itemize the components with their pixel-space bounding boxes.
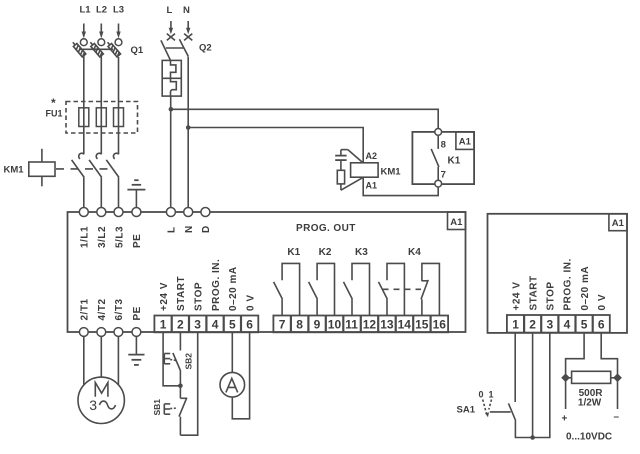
pushbutton SB2 (start)	[164, 332, 193, 385]
terminal 5/L3	[114, 208, 125, 249]
wire ammeter to terminal 6	[232, 332, 249, 418]
terminal 2/T1	[79, 298, 90, 336]
breaker Q2 pole L blade	[161, 40, 171, 60]
wire T3 to motor	[117, 337, 119, 386]
relay contact K2	[309, 247, 335, 316]
svg-text:6: 6	[246, 317, 253, 331]
wire terminal 1 to junction	[163, 332, 180, 385]
terminal 1/L1	[79, 208, 90, 249]
svg-text:3: 3	[547, 317, 554, 331]
K4 mechanical link dashed	[383, 288, 422, 290]
KM1 main contact pole 3	[106, 153, 119, 207]
svg-text:N: N	[184, 225, 195, 233]
svg-text:A2: A2	[366, 151, 378, 161]
svg-text:L2: L2	[96, 5, 107, 16]
svg-text:+: +	[562, 414, 568, 425]
svg-text:0...10VDC: 0...10VDC	[566, 432, 612, 443]
wire terminal 5 to ammeter	[231, 332, 233, 372]
svg-text:K2: K2	[319, 247, 332, 258]
motor M1	[78, 377, 124, 423]
svg-text:1/2W: 1/2W	[578, 397, 602, 408]
svg-text:0 V: 0 V	[597, 294, 608, 311]
svg-text:5/L3: 5/L3	[114, 226, 125, 248]
breaker Q2 pole N contact cross	[184, 34, 192, 41]
svg-text:2: 2	[177, 317, 184, 331]
svg-text:0 V: 0 V	[245, 294, 256, 311]
contactor KM1 coil A1/A2 (right)	[351, 151, 402, 191]
svg-text:1: 1	[160, 317, 167, 331]
svg-text:4/T2: 4/T2	[97, 298, 108, 320]
main device box A1	[68, 212, 466, 332]
right box A1 tag	[609, 214, 627, 231]
wire terminal 5 to resistor	[566, 333, 585, 378]
svg-text:L: L	[167, 226, 178, 233]
svg-text:0–20 mA: 0–20 mA	[580, 266, 591, 311]
svg-text:A1: A1	[366, 181, 378, 191]
svg-text:K1: K1	[448, 156, 461, 167]
svg-text:K1: K1	[287, 247, 300, 258]
wire L supply arrow	[169, 21, 173, 34]
terminal 6/T3	[114, 298, 125, 336]
svg-text:SB2: SB2	[184, 353, 194, 370]
svg-text:PE: PE	[132, 306, 143, 320]
relay K1	[412, 129, 474, 188]
wire to + input	[565, 378, 567, 409]
pushbutton SB1 (stop)	[152, 386, 187, 435]
svg-text:6/T3: 6/T3	[114, 298, 125, 320]
breaker Q2 pole N blade	[179, 39, 188, 56]
svg-text:Q1: Q1	[131, 45, 144, 56]
svg-text:A1: A1	[459, 137, 472, 148]
svg-text:2: 2	[529, 317, 536, 331]
ammeter P1	[220, 372, 245, 397]
svg-text:+24 V: +24 V	[511, 282, 522, 311]
svg-text:1/L1: 1/L1	[80, 226, 91, 248]
node right of resistor	[613, 373, 622, 382]
wire L3 supply arrow	[116, 24, 120, 39]
right device box A1	[488, 214, 628, 333]
svg-text:2/T1: 2/T1	[80, 298, 91, 320]
terminal 4/T2	[97, 298, 108, 336]
svg-text:9: 9	[314, 317, 321, 331]
svg-text:PROG. IN.: PROG. IN.	[211, 259, 222, 311]
svg-text:0–20 mA: 0–20 mA	[228, 266, 239, 311]
svg-text:3/L2: 3/L2	[97, 226, 108, 248]
fuse F1 body	[79, 108, 89, 127]
terminal 3/L2	[97, 208, 108, 249]
svg-text:13: 13	[380, 317, 394, 331]
node left of resistor	[561, 373, 570, 382]
wire L2 supply arrow	[99, 24, 103, 39]
wire to - input	[617, 378, 619, 409]
wire L3 Q1 to fuse	[118, 57, 120, 154]
resistor R1 500R	[566, 371, 618, 408]
wire L down from Q2	[170, 96, 172, 208]
terminal strip 1-6	[154, 316, 258, 333]
wire N down from Q2	[187, 57, 189, 208]
snubber capacitor	[335, 150, 363, 171]
wire T1 to motor	[83, 337, 85, 386]
junction control	[178, 384, 183, 389]
KM1 mechanical link (dashed)	[56, 168, 112, 170]
wire N to coil KM1 A2	[188, 128, 363, 163]
disconnector Q1 pole 1	[71, 39, 87, 57]
svg-text:3: 3	[194, 317, 201, 331]
svg-text:12: 12	[363, 317, 377, 331]
wire right terminal 1 down	[514, 333, 516, 402]
right terminal strip 1-6	[507, 315, 610, 333]
Q2 mechanical link	[166, 47, 184, 49]
svg-text:Q2: Q2	[199, 43, 212, 54]
svg-text:START: START	[528, 275, 539, 310]
svg-text:D: D	[201, 225, 212, 233]
svg-text:5: 5	[229, 317, 236, 331]
terminal PE bottom	[132, 306, 143, 336]
svg-text:KM1: KM1	[4, 165, 25, 176]
terminal strip 7-16	[273, 316, 448, 333]
svg-text:4: 4	[212, 317, 219, 331]
svg-text:1: 1	[489, 390, 494, 400]
junction N	[186, 125, 191, 130]
selector switch SA1	[457, 390, 516, 421]
breaker Q2 release box	[162, 60, 181, 96]
svg-text:8: 8	[296, 317, 303, 331]
svg-text:+24 V: +24 V	[159, 282, 170, 311]
svg-text:SA1: SA1	[457, 405, 476, 416]
svg-text:STOP: STOP	[194, 282, 205, 311]
KM1 main contact pole 2	[89, 153, 102, 207]
wire start branch	[532, 333, 534, 438]
wire L2 Q1 to fuse	[100, 56, 102, 155]
svg-text:L1: L1	[80, 5, 92, 16]
svg-text:3: 3	[89, 397, 97, 413]
terminal N	[184, 208, 195, 234]
snubber resistor	[337, 170, 363, 190]
fuse FU1 dashed enclosure	[66, 102, 138, 134]
svg-text:0: 0	[479, 390, 484, 400]
svg-text:L3: L3	[113, 5, 124, 16]
svg-text:7: 7	[441, 170, 446, 181]
relay contact K4 (NO half)	[379, 247, 422, 316]
terminal PE top	[132, 208, 143, 249]
fuse F2 body	[96, 108, 106, 127]
wire terminal 6 to resistor	[601, 333, 617, 378]
Q1 mechanical link bar	[79, 48, 113, 50]
svg-text:7: 7	[279, 317, 286, 331]
svg-text:KM1: KM1	[381, 167, 402, 178]
contactor KM1 coil (left)	[4, 149, 56, 187]
fuse FU1 label	[46, 96, 63, 119]
wire L to relay K1 terminal 8	[171, 109, 438, 128]
svg-text:4: 4	[564, 317, 571, 331]
relay contact K4 (NC half)	[421, 263, 439, 315]
wire SB1 to terminal 3	[180, 332, 197, 435]
svg-text:N: N	[183, 5, 190, 16]
svg-text:10: 10	[328, 317, 342, 331]
svg-text:STOP: STOP	[546, 281, 557, 310]
svg-text:14: 14	[398, 317, 412, 331]
wire coil A1 to K1 terminal 7	[363, 177, 438, 195]
svg-text:15: 15	[415, 317, 429, 331]
wire L1 supply arrow	[82, 24, 86, 39]
svg-text:1: 1	[512, 317, 519, 331]
svg-text:16: 16	[433, 317, 447, 331]
breaker Q2 pole L contact cross	[167, 34, 175, 41]
KM1 main contact pole 1	[72, 153, 85, 207]
wire T2 to motor	[100, 337, 102, 378]
svg-text:K4: K4	[408, 247, 421, 258]
junction SA1	[530, 435, 535, 440]
relay contact K3	[344, 247, 370, 316]
terminal D	[201, 208, 212, 234]
svg-text:8: 8	[441, 140, 446, 151]
ground symbol top PE	[127, 180, 145, 207]
svg-text:SB1: SB1	[152, 399, 162, 416]
wire SA1 to terminals 2,3	[515, 333, 549, 438]
ground symbol bottom PE	[128, 337, 144, 365]
svg-text:K3: K3	[355, 247, 368, 258]
svg-text:6: 6	[598, 317, 605, 331]
svg-text:5: 5	[581, 317, 588, 331]
disconnector Q1 pole 3	[105, 39, 121, 57]
junction L	[169, 107, 174, 112]
svg-text:L: L	[167, 5, 173, 16]
fuse F3 body	[114, 108, 124, 127]
main box A1 tag	[448, 212, 466, 230]
svg-text:PROG. IN.: PROG. IN.	[563, 258, 574, 310]
svg-text:A1: A1	[450, 217, 463, 228]
relay contact K1	[274, 247, 301, 316]
svg-text:–: –	[614, 412, 620, 423]
disconnector Q1 pole 2	[88, 39, 104, 57]
wire L1 Q1 to fuse	[83, 56, 85, 155]
terminal L	[166, 208, 177, 234]
svg-text:11: 11	[345, 317, 358, 331]
svg-text:FU1: FU1	[46, 109, 63, 119]
svg-text:PROG. OUT: PROG. OUT	[296, 223, 356, 234]
svg-text:START: START	[176, 276, 187, 311]
svg-text:A1: A1	[612, 218, 625, 229]
wire N supply arrow	[186, 21, 190, 34]
svg-text:PE: PE	[132, 234, 143, 248]
